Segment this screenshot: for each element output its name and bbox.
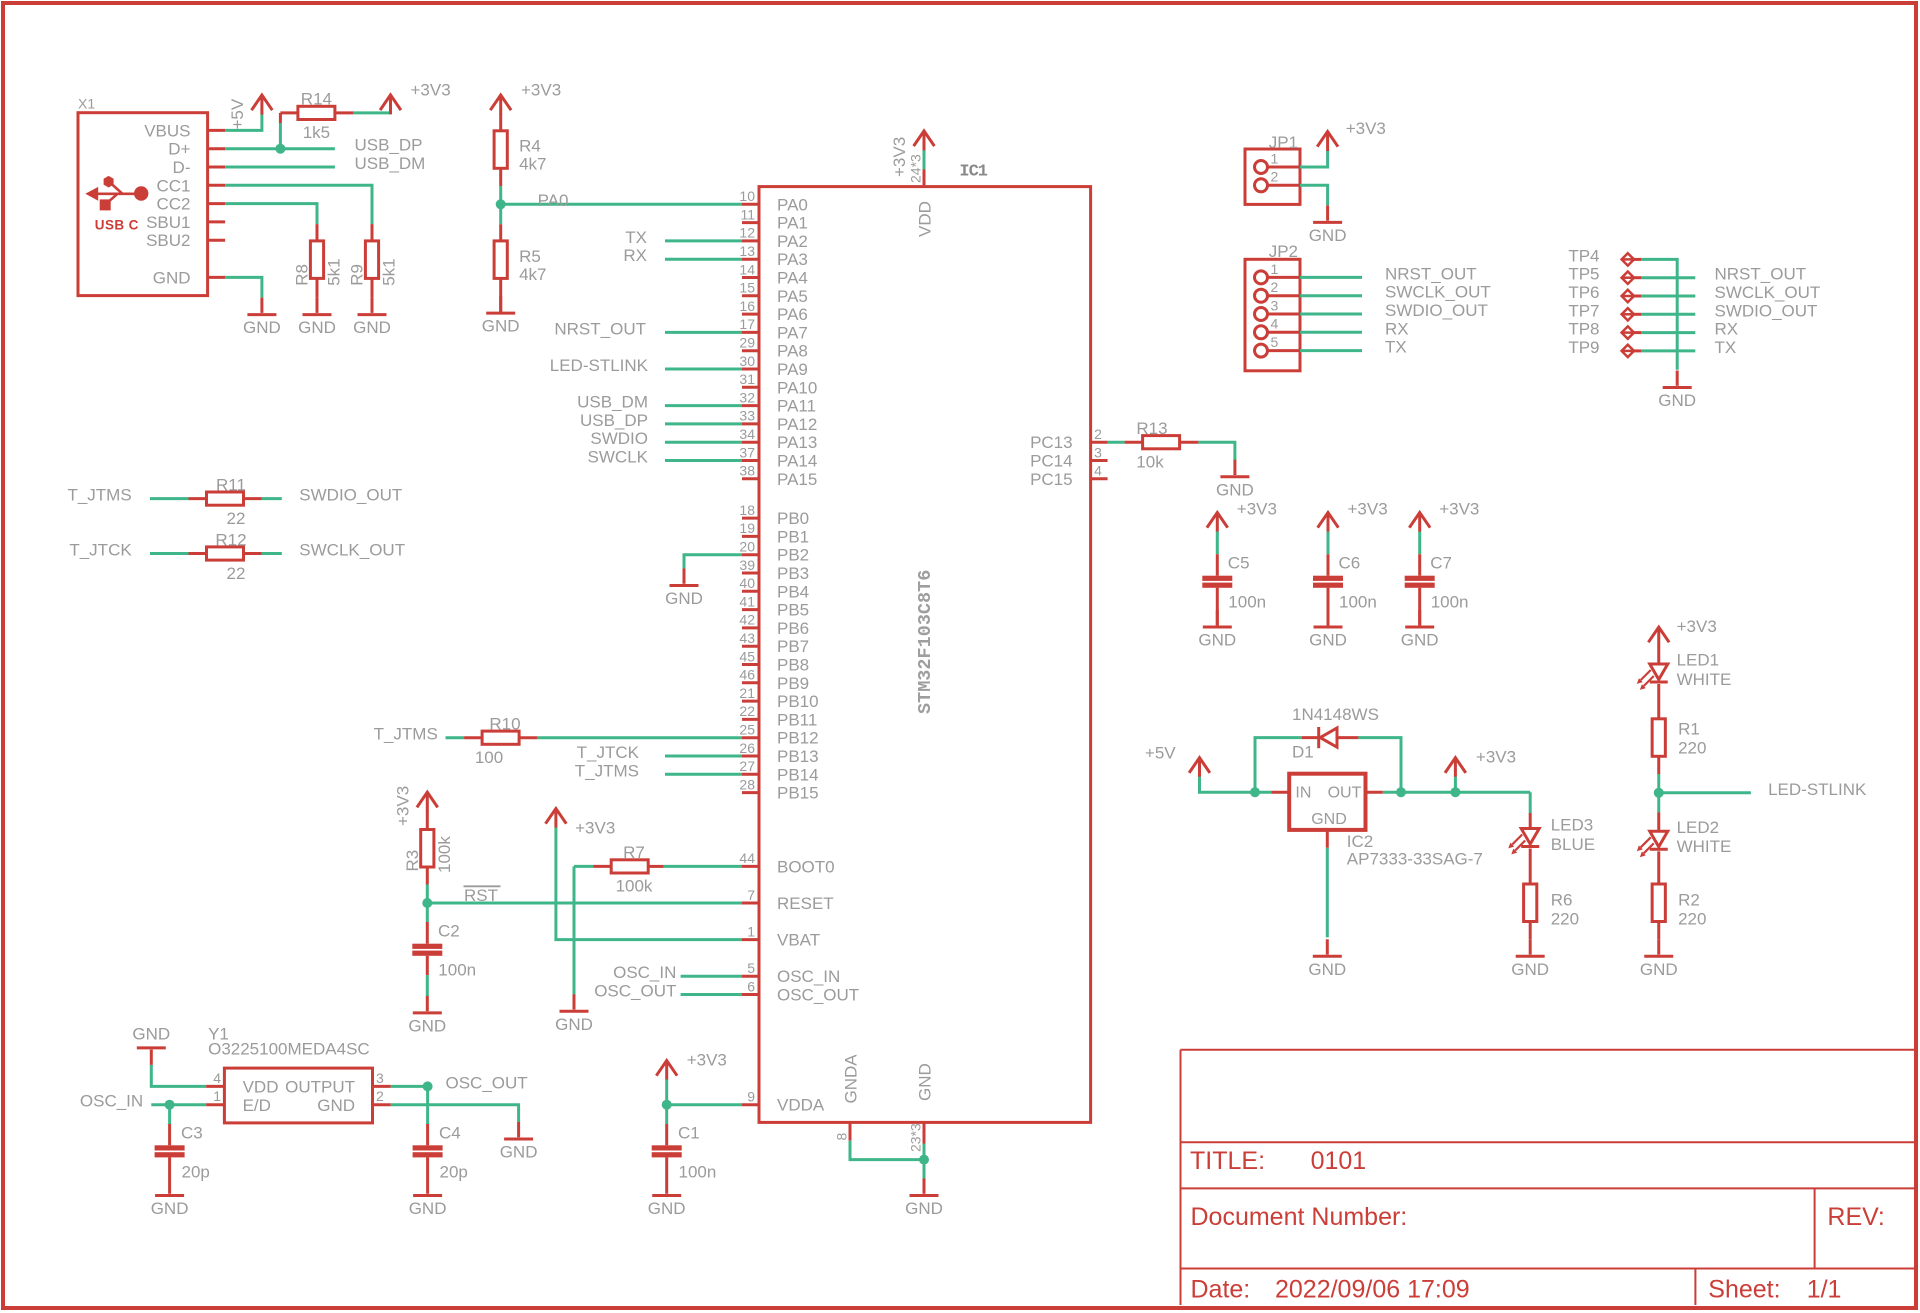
wire R11 to SWDIO_OUT xyxy=(262,497,282,500)
wire PA0 net xyxy=(501,203,742,206)
svg-text:+3V3: +3V3 xyxy=(890,137,909,177)
svg-text:100n: 100n xyxy=(1431,593,1469,612)
junction VDDA / C1 xyxy=(662,1100,672,1110)
svg-text:JP2: JP2 xyxy=(1269,242,1298,261)
wire VBUS to +5V xyxy=(225,113,262,130)
resistor R9 5k1 xyxy=(348,224,399,298)
wire GND pin down xyxy=(923,1144,926,1180)
svg-text:2022/09/06 17:09: 2022/09/06 17:09 xyxy=(1275,1276,1470,1304)
svg-text:GND: GND xyxy=(555,1015,593,1034)
svg-text:TP9: TP9 xyxy=(1568,338,1599,357)
ground (C3) xyxy=(151,1179,189,1219)
wire D+ to R14 xyxy=(279,123,282,149)
svg-text:IN: IN xyxy=(1295,785,1311,802)
svg-text:GND: GND xyxy=(408,1016,446,1035)
test point TP8 xyxy=(1568,320,1641,339)
svg-text:Date:: Date: xyxy=(1191,1276,1251,1304)
LED LED2 WHITE xyxy=(1637,813,1732,858)
svg-text:T_JTMS: T_JTMS xyxy=(67,486,131,505)
svg-text:R9: R9 xyxy=(348,264,367,286)
svg-text:TX: TX xyxy=(1715,338,1737,357)
supply +3V3 (IC2 out) xyxy=(1445,747,1516,792)
IC1 pin 38 PA15 xyxy=(739,463,817,489)
ground (C2) xyxy=(408,996,446,1036)
wire USB_DM xyxy=(665,404,742,407)
svg-text:PA3: PA3 xyxy=(777,250,808,269)
svg-text:SWDIO_OUT: SWDIO_OUT xyxy=(1385,301,1488,320)
X1 pin D+ xyxy=(168,140,225,159)
wire R10 to PB12 xyxy=(537,736,742,739)
svg-text:NRST_OUT: NRST_OUT xyxy=(554,319,646,338)
JP2 pin 3 xyxy=(1255,297,1301,320)
wire JP2.4 RX xyxy=(1300,331,1362,334)
svg-text:D+: D+ xyxy=(168,140,190,159)
svg-text:PB11: PB11 xyxy=(777,710,817,729)
wire +3V3 to C6 xyxy=(1327,532,1330,555)
svg-text:21: 21 xyxy=(739,685,755,701)
svg-text:LED-STLINK: LED-STLINK xyxy=(550,356,649,375)
svg-text:PA9: PA9 xyxy=(777,360,808,379)
IC1 pin 40 PB4 xyxy=(739,575,809,601)
svg-text:22: 22 xyxy=(227,509,246,528)
svg-text:+5V: +5V xyxy=(1145,744,1176,763)
svg-text:C3: C3 xyxy=(181,1123,203,1142)
svg-text:PA12: PA12 xyxy=(777,415,817,434)
ground (C1) xyxy=(648,1179,686,1219)
svg-text:C6: C6 xyxy=(1339,554,1361,573)
svg-text:SWCLK_OUT: SWCLK_OUT xyxy=(1385,283,1491,302)
svg-text:5k1: 5k1 xyxy=(380,258,399,285)
wire T_JTCK xyxy=(665,755,742,758)
svg-text:46: 46 xyxy=(739,667,755,683)
title block xyxy=(1181,1050,1915,1305)
ground (IC1) xyxy=(905,1179,943,1219)
svg-text:OSC_OUT: OSC_OUT xyxy=(777,986,859,1005)
wire IC2 GND xyxy=(1326,830,1329,848)
wire D1 right branch xyxy=(1358,738,1401,793)
IC1 pin 42 PB6 xyxy=(739,612,809,638)
svg-text:100n: 100n xyxy=(1228,593,1266,612)
svg-text:18: 18 xyxy=(739,502,755,518)
svg-text:100k: 100k xyxy=(435,836,454,873)
svg-text:REV:: REV: xyxy=(1827,1203,1884,1231)
wire junction to C1 xyxy=(665,1105,668,1124)
svg-text:GND: GND xyxy=(153,268,191,287)
svg-text:OSC_IN: OSC_IN xyxy=(80,1092,143,1111)
IC1 pin 7 RESET xyxy=(742,887,834,913)
svg-text:2: 2 xyxy=(1271,279,1279,295)
svg-text:JP1: JP1 xyxy=(1269,133,1298,152)
svg-text:32: 32 xyxy=(739,389,755,405)
svg-text:6: 6 xyxy=(747,978,755,994)
IC1 pin 15 PA5 xyxy=(739,280,807,306)
svg-text:100: 100 xyxy=(475,748,503,767)
wire VDDA xyxy=(667,1103,742,1106)
wire +3V3 to C7 xyxy=(1418,532,1421,555)
IC1 pin 18 PB0 xyxy=(739,502,809,528)
svg-text:R1: R1 xyxy=(1678,719,1700,738)
IC1 pin 12 PA2 xyxy=(739,225,807,251)
svg-text:PB0: PB0 xyxy=(777,509,809,528)
svg-text:GND: GND xyxy=(1511,960,1549,979)
wire NRST_OUT xyxy=(665,331,742,334)
wire D- net USB_DM xyxy=(225,166,335,169)
svg-text:C1: C1 xyxy=(678,1123,700,1142)
svg-text:C4: C4 xyxy=(439,1123,461,1142)
svg-text:17: 17 xyxy=(739,316,755,332)
svg-text:TP8: TP8 xyxy=(1568,320,1599,339)
IC1 pin 24*3 VDD xyxy=(908,154,935,237)
wire T_JTMS to R10 xyxy=(446,736,465,739)
svg-text:USB C: USB C xyxy=(95,218,139,233)
wire TP4 to GND bus xyxy=(1641,259,1677,369)
wire RST junction to C2 xyxy=(426,903,429,922)
svg-text:R12: R12 xyxy=(215,530,246,549)
wire LED-STLINK xyxy=(1659,791,1751,794)
IC1 pin 21 PB10 xyxy=(739,685,818,711)
IC1 pin 27 PB14 xyxy=(739,758,818,784)
svg-text:20: 20 xyxy=(739,539,755,555)
wire LED-STLINK xyxy=(665,368,742,371)
svg-text:PB8: PB8 xyxy=(777,656,809,675)
svg-text:15: 15 xyxy=(739,280,755,296)
ground (R5) xyxy=(482,296,520,336)
wire junction to C4 xyxy=(426,1086,429,1124)
svg-text:PB4: PB4 xyxy=(777,582,809,601)
IC1 pin 46 PB9 xyxy=(739,667,809,693)
X1 pin CC1 xyxy=(156,176,225,195)
svg-text:1: 1 xyxy=(1271,261,1279,277)
svg-text:PC14: PC14 xyxy=(1030,452,1073,471)
wire VDD to +3V3 xyxy=(923,150,926,170)
svg-text:GND: GND xyxy=(1308,960,1346,979)
wire D1 left branch xyxy=(1255,738,1302,793)
wire R13 to GND xyxy=(1198,442,1235,460)
svg-text:4: 4 xyxy=(1271,316,1279,332)
X1 pin VBUS xyxy=(144,121,225,140)
svg-text:2: 2 xyxy=(1094,426,1102,442)
test point TP6 xyxy=(1568,283,1641,302)
IC1 pin 23*3 GND xyxy=(908,1063,935,1152)
svg-text:R8: R8 xyxy=(293,264,312,286)
X1 pin GND xyxy=(153,268,225,287)
svg-text:USB_DM: USB_DM xyxy=(577,393,648,412)
ground (R2) xyxy=(1640,939,1678,979)
svg-text:24*3: 24*3 xyxy=(908,154,924,183)
svg-text:GND: GND xyxy=(409,1199,447,1218)
svg-text:13: 13 xyxy=(739,243,755,259)
junction D1 right xyxy=(1396,787,1406,797)
svg-text:VDD: VDD xyxy=(916,201,935,237)
wire SWDIO xyxy=(665,441,742,444)
svg-text:C2: C2 xyxy=(438,922,460,941)
svg-text:PB2: PB2 xyxy=(777,546,809,565)
svg-text:PB7: PB7 xyxy=(777,637,809,656)
svg-text:PA15: PA15 xyxy=(777,470,817,489)
svg-text:27: 27 xyxy=(739,758,755,774)
svg-text:1: 1 xyxy=(213,1088,221,1104)
svg-text:5k1: 5k1 xyxy=(325,258,344,285)
capacitor C3 20p xyxy=(155,1123,210,1181)
IC1 pin 31 PA10 xyxy=(739,371,817,397)
svg-text:PA0: PA0 xyxy=(538,191,569,210)
wire junction to R5 xyxy=(499,204,502,224)
svg-text:25: 25 xyxy=(739,722,755,738)
supply +3V3 (LED1) xyxy=(1648,617,1716,647)
svg-text:+3V3: +3V3 xyxy=(1439,500,1479,519)
svg-text:D1: D1 xyxy=(1292,743,1314,762)
svg-text:1: 1 xyxy=(1271,150,1279,166)
svg-text:GND: GND xyxy=(1216,480,1254,499)
LED LED1 WHITE xyxy=(1637,646,1732,690)
IC1 pin 29 PA8 xyxy=(739,335,807,361)
svg-text:PB1: PB1 xyxy=(777,527,809,546)
svg-text:PA6: PA6 xyxy=(777,305,808,324)
svg-text:R6: R6 xyxy=(1551,890,1573,909)
resistor R5 4k7 xyxy=(494,224,546,313)
ground (C6) xyxy=(1309,610,1347,650)
svg-text:R11: R11 xyxy=(216,475,246,494)
svg-text:GND: GND xyxy=(317,1096,355,1115)
junction D1 left xyxy=(1250,787,1260,797)
wire TP8 RX xyxy=(1641,331,1695,334)
svg-text:PB14: PB14 xyxy=(777,765,819,784)
svg-text:LED-STLINK: LED-STLINK xyxy=(1768,780,1867,799)
svg-text:TP4: TP4 xyxy=(1568,246,1599,265)
wire JP1.1 to +3V3 xyxy=(1300,150,1328,167)
svg-text:Sheet:: Sheet: xyxy=(1708,1276,1780,1304)
capacitor C7 100n xyxy=(1405,554,1469,626)
wire JP2.5 TX xyxy=(1300,349,1362,352)
resistor R4 4k7 xyxy=(494,131,546,186)
svg-text:19: 19 xyxy=(739,520,755,536)
svg-text:R13: R13 xyxy=(1136,419,1167,438)
IC1 pin 45 PB8 xyxy=(739,648,809,674)
svg-text:D-: D- xyxy=(173,158,191,177)
svg-text:LED2: LED2 xyxy=(1677,818,1720,837)
svg-text:45: 45 xyxy=(739,648,755,664)
svg-text:44: 44 xyxy=(739,850,755,866)
svg-text:LED3: LED3 xyxy=(1551,816,1594,835)
svg-text:TP7: TP7 xyxy=(1568,301,1599,320)
svg-text:GND: GND xyxy=(298,318,336,337)
IC1 pin 22 PB11 xyxy=(739,703,817,729)
svg-text:CC2: CC2 xyxy=(156,195,190,214)
ground (Y1 VDD, inverted) xyxy=(132,1025,170,1065)
svg-text:5: 5 xyxy=(747,960,755,976)
IC1 pin 39 PB3 xyxy=(739,557,809,583)
svg-text:R3: R3 xyxy=(403,850,422,872)
wire R7 to GND xyxy=(573,866,576,995)
header JP2 xyxy=(1245,242,1300,371)
IC1 pin 1 VBAT xyxy=(742,923,820,949)
junction +3V3 out xyxy=(1450,787,1460,797)
svg-text:+3V3: +3V3 xyxy=(1346,119,1386,138)
svg-text:4k7: 4k7 xyxy=(519,265,546,284)
wire JP2.3 SWDIO_OUT xyxy=(1300,313,1362,316)
svg-text:CC1: CC1 xyxy=(156,176,190,195)
svg-text:37: 37 xyxy=(739,444,755,460)
svg-text:100n: 100n xyxy=(679,1162,717,1181)
oscillator Y1 O3225100MEDA4SC xyxy=(208,1025,372,1123)
svg-text:7: 7 xyxy=(747,887,755,903)
resistor R13 10k xyxy=(1125,419,1199,472)
svg-text:BOOT0: BOOT0 xyxy=(777,857,835,876)
svg-text:Document Number:: Document Number: xyxy=(1191,1203,1408,1231)
svg-text:RST: RST xyxy=(464,886,498,905)
test point TP9 xyxy=(1568,338,1641,357)
svg-text:+3V3: +3V3 xyxy=(687,1051,727,1070)
svg-text:PB15: PB15 xyxy=(777,784,819,803)
svg-text:GND: GND xyxy=(353,318,391,337)
IC1 pin 25 PB12 xyxy=(739,722,818,748)
diode D1 1N4148WS xyxy=(1292,705,1379,762)
connector X1 USB C xyxy=(78,96,208,296)
svg-text:O3225100MEDA4SC: O3225100MEDA4SC xyxy=(208,1040,370,1059)
ground (PB2) xyxy=(665,569,703,609)
capacitor C4 20p xyxy=(413,1123,468,1181)
svg-text:GND: GND xyxy=(905,1199,943,1218)
wire OSC_IN to Y1 pin1 xyxy=(151,1103,206,1106)
svg-text:SWCLK_OUT: SWCLK_OUT xyxy=(299,541,405,560)
svg-text:PA1: PA1 xyxy=(777,214,808,233)
junction GND pins xyxy=(919,1155,929,1165)
svg-text:+3V3: +3V3 xyxy=(1348,500,1388,519)
svg-text:SBU2: SBU2 xyxy=(146,231,190,250)
IC1 pin 26 PB13 xyxy=(739,740,818,766)
svg-text:1k5: 1k5 xyxy=(303,123,330,142)
wire T_JTMS xyxy=(665,773,742,776)
svg-text:PB10: PB10 xyxy=(777,692,819,711)
svg-text:PC15: PC15 xyxy=(1030,470,1073,489)
wire JP1.2 to GND xyxy=(1300,185,1328,205)
svg-text:43: 43 xyxy=(739,630,755,646)
svg-text:OSC_IN: OSC_IN xyxy=(613,963,676,982)
svg-text:NRST_OUT: NRST_OUT xyxy=(1715,265,1807,284)
wire C2 to GND xyxy=(426,975,429,996)
svg-text:SWCLK: SWCLK xyxy=(588,448,649,467)
IC1 pin 43 PB7 xyxy=(739,630,809,656)
svg-text:+5V: +5V xyxy=(228,98,247,129)
Y1 pin 1 xyxy=(206,1088,224,1105)
ground (Y1 pin2) xyxy=(500,1122,538,1162)
capacitor C1 100n xyxy=(652,1123,717,1181)
svg-text:VBUS: VBUS xyxy=(144,121,190,140)
IC1 pin 6 OSC_OUT xyxy=(742,978,859,1004)
svg-text:220: 220 xyxy=(1678,739,1706,758)
junction RST xyxy=(422,898,432,908)
svg-text:GND: GND xyxy=(1309,631,1347,650)
svg-text:30: 30 xyxy=(739,353,755,369)
svg-text:T_JTCK: T_JTCK xyxy=(577,743,640,762)
svg-text:GND: GND xyxy=(132,1025,170,1044)
Y1 pin 2 xyxy=(373,1088,391,1105)
svg-text:28: 28 xyxy=(739,776,755,792)
IC1 pin 9 VDDA xyxy=(742,1089,825,1115)
IC1 pin 41 PB5 xyxy=(739,593,809,619)
X1 pin CC2 xyxy=(156,195,225,214)
svg-text:RX: RX xyxy=(1715,320,1739,339)
svg-text:+3V3: +3V3 xyxy=(521,81,561,100)
svg-text:OSC_OUT: OSC_OUT xyxy=(446,1073,528,1092)
JP2 pin 5 xyxy=(1255,334,1301,357)
svg-text:GND: GND xyxy=(665,589,703,608)
junction OSC_IN / C3 xyxy=(165,1100,175,1110)
svg-text:OUTPUT: OUTPUT xyxy=(285,1078,355,1097)
svg-text:USB_DP: USB_DP xyxy=(580,411,648,430)
svg-text:GND: GND xyxy=(916,1063,935,1101)
svg-text:GND: GND xyxy=(1640,960,1678,979)
wire RX xyxy=(665,258,742,261)
wire junction to LED2 xyxy=(1657,793,1660,813)
IC1 pin 17 PA7 xyxy=(739,316,807,342)
wire +5V to IC2 IN xyxy=(1200,777,1272,793)
svg-text:10: 10 xyxy=(739,188,755,204)
ground (R13) xyxy=(1216,460,1254,500)
wire T_JTMS to R11 xyxy=(150,497,189,500)
wire TP7 SWDIO_OUT xyxy=(1641,313,1695,316)
wire JP2.2 SWCLK_OUT xyxy=(1300,294,1362,297)
svg-text:33: 33 xyxy=(739,408,755,424)
svg-text:X1: X1 xyxy=(78,96,95,112)
svg-text:IC2: IC2 xyxy=(1347,832,1373,851)
IC U1 main box IC1 STM32F103C8T6 xyxy=(759,162,1091,1122)
ground (C4) xyxy=(409,1179,447,1219)
svg-text:GND: GND xyxy=(1658,391,1696,410)
supply +5V (USB area) xyxy=(228,95,272,130)
resistor R6 220 xyxy=(1524,849,1579,940)
junction LED-STLINK xyxy=(1654,788,1664,798)
svg-text:TP6: TP6 xyxy=(1568,283,1599,302)
svg-text:29: 29 xyxy=(739,335,755,351)
capacitor C2 100n xyxy=(412,922,476,980)
Y1 pin 4 xyxy=(206,1070,224,1087)
svg-text:11: 11 xyxy=(740,206,755,222)
resistor R11 22 xyxy=(189,475,262,528)
supply +3V3 (VDD) xyxy=(890,131,934,177)
IC1 pin 19 PB1 xyxy=(739,520,809,546)
IC1 pin 16 PA6 xyxy=(739,298,807,324)
wire OSC_OUT xyxy=(681,993,742,996)
svg-text:12: 12 xyxy=(739,225,755,241)
svg-text:PA13: PA13 xyxy=(777,433,817,452)
svg-text:+3V3: +3V3 xyxy=(1476,747,1516,766)
svg-text:220: 220 xyxy=(1678,910,1706,929)
svg-text:TP5: TP5 xyxy=(1568,265,1599,284)
wire Y1 pin3 OSC_OUT xyxy=(391,1085,428,1088)
wire OUT to LED3 xyxy=(1529,792,1532,813)
IC1 pin 20 PB2 xyxy=(739,539,809,565)
ground (R9) xyxy=(353,298,391,338)
test point TP7 xyxy=(1568,301,1641,320)
svg-text:10k: 10k xyxy=(1136,453,1164,472)
svg-text:+3V3: +3V3 xyxy=(411,81,451,100)
IC1 pin 3 PC14 xyxy=(1030,444,1108,470)
wire T_JTCK to R12 xyxy=(150,552,189,555)
svg-text:WHITE: WHITE xyxy=(1677,837,1732,856)
regulator IC2 AP7333-33SAG-7 xyxy=(1271,774,1483,869)
svg-text:GNDA: GNDA xyxy=(842,1054,861,1104)
wire GNDA to GND xyxy=(850,1141,924,1160)
supply +3V3 (C1) xyxy=(656,1051,727,1080)
junction PA0 xyxy=(496,199,506,209)
svg-text:OUT: OUT xyxy=(1328,785,1362,802)
ground (R6) xyxy=(1511,939,1549,979)
IC1 pin 28 PB15 xyxy=(739,776,818,802)
svg-text:SWDIO_OUT: SWDIO_OUT xyxy=(1715,301,1818,320)
junction D+ xyxy=(275,144,285,154)
svg-text:R10: R10 xyxy=(489,715,520,734)
